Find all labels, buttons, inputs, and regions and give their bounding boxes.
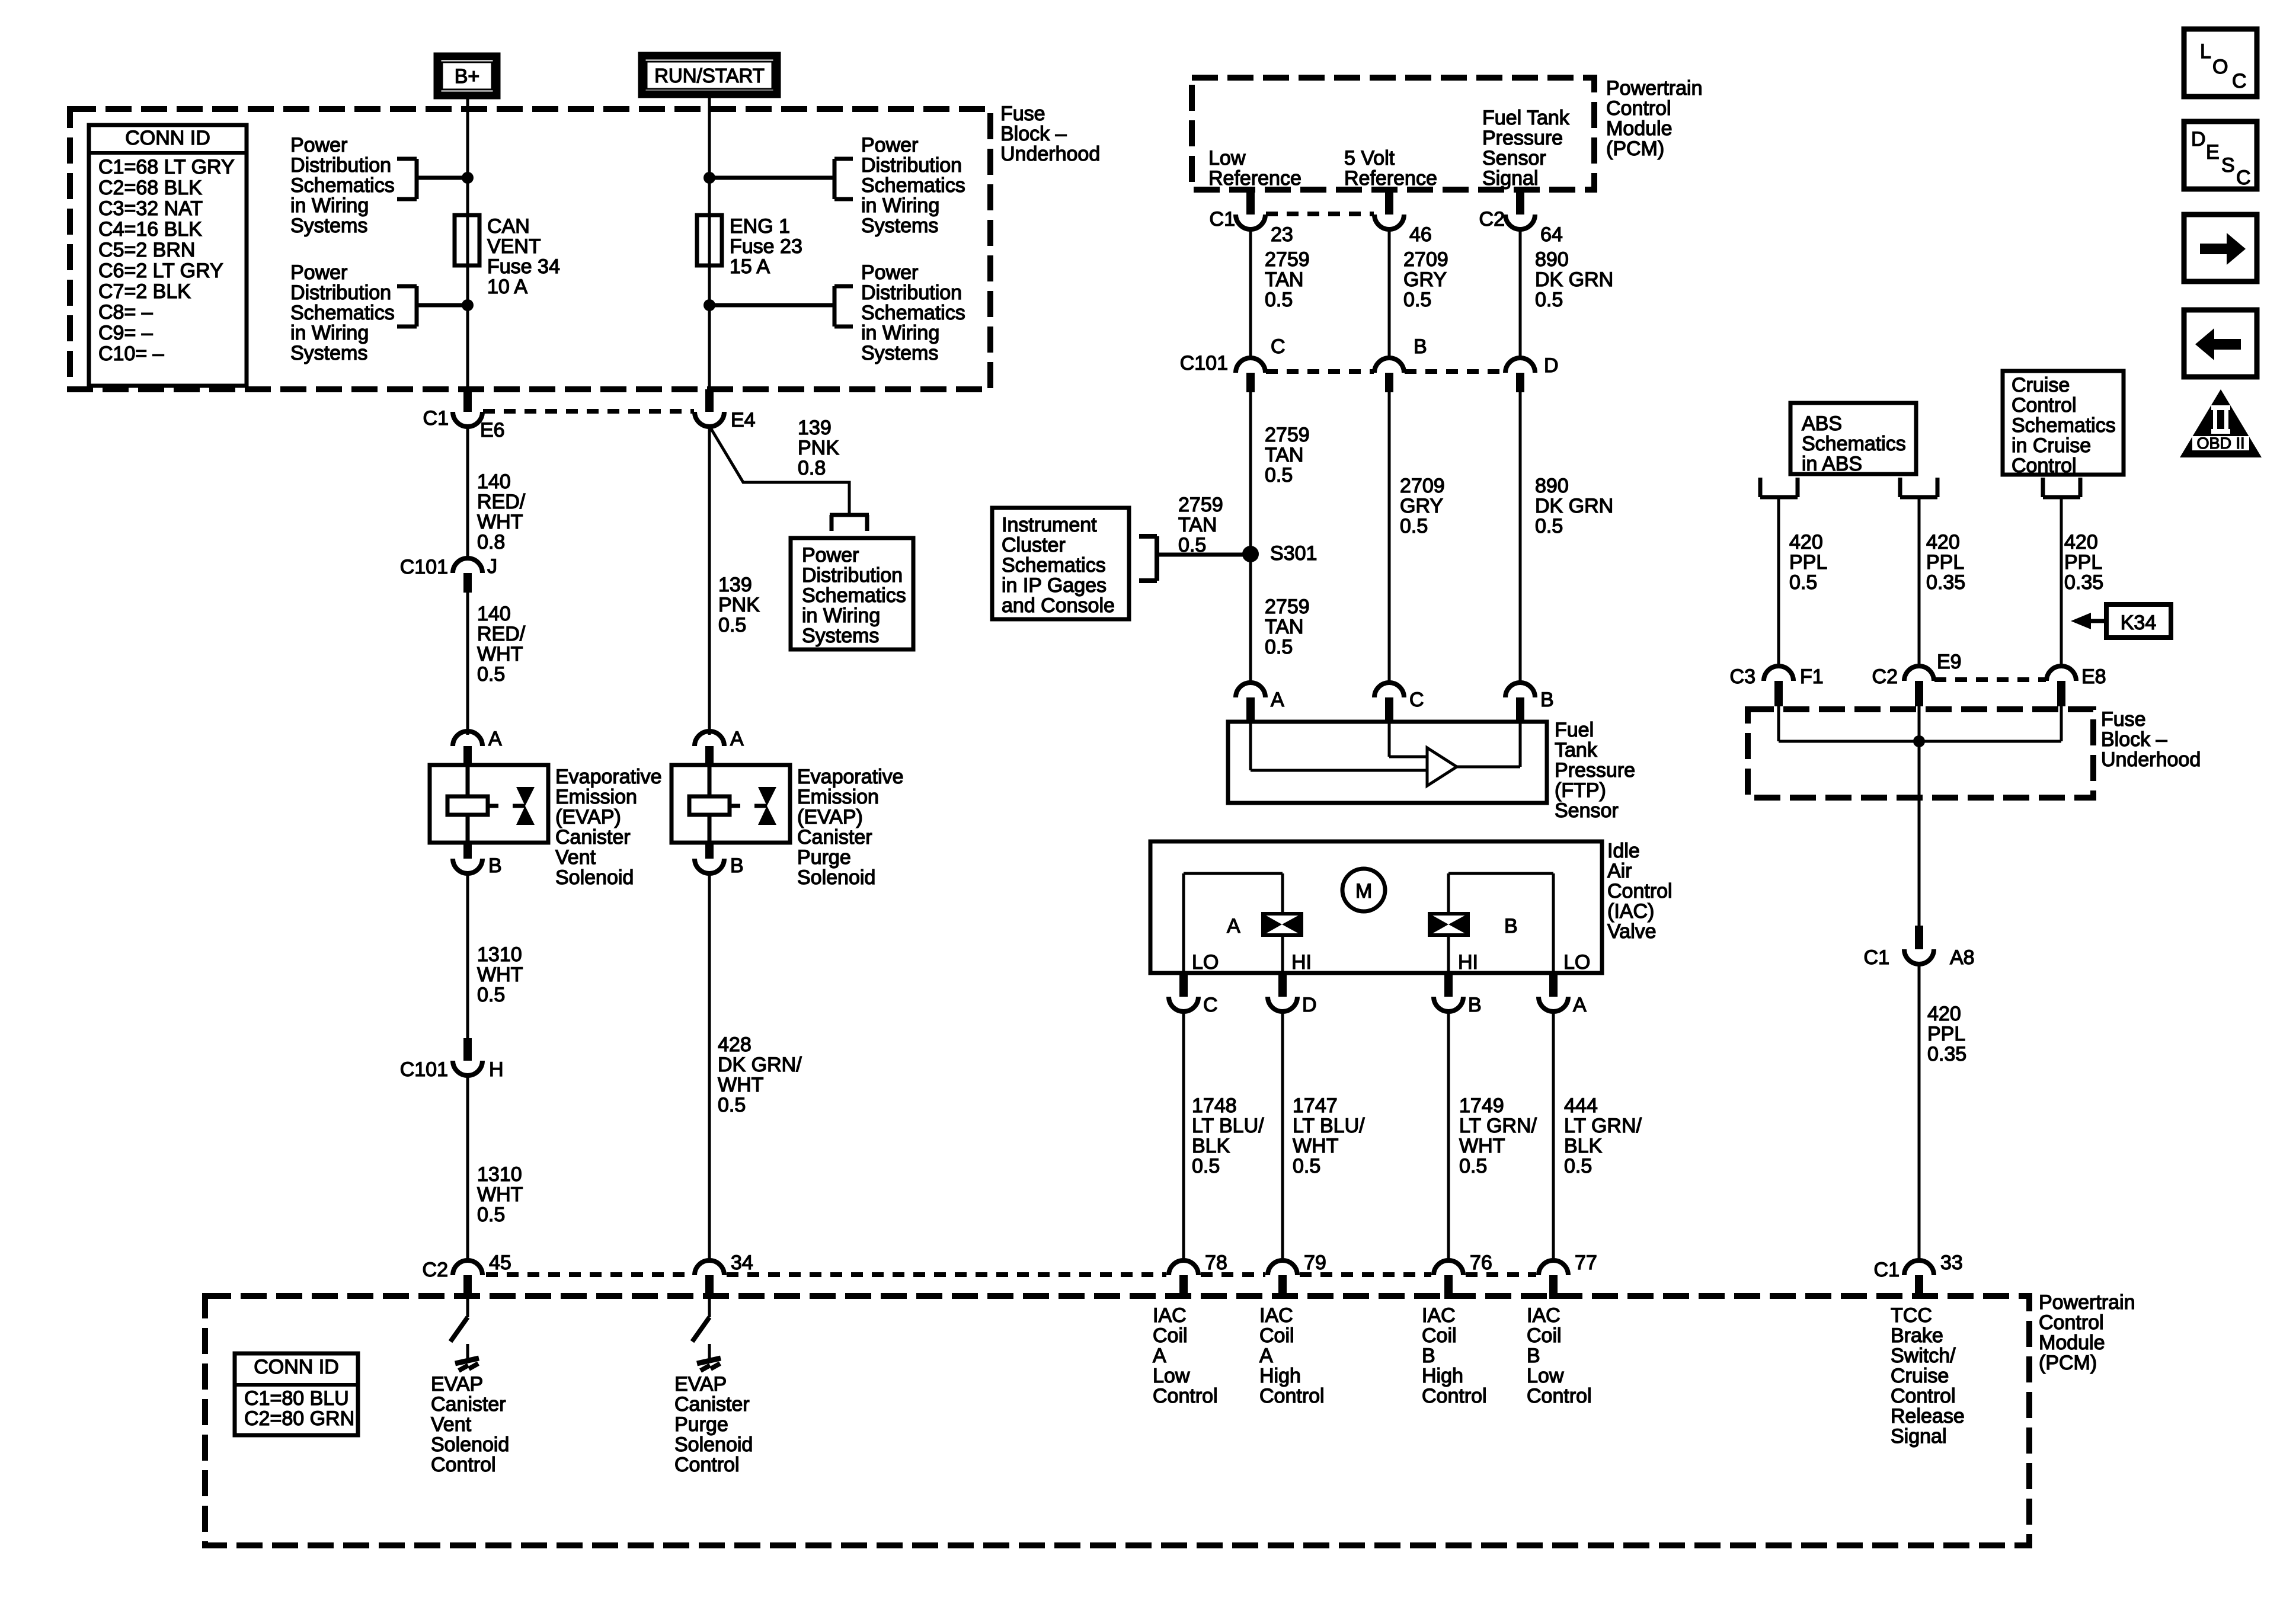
- svg-text:E: E: [2206, 141, 2220, 164]
- wire stub to lower-right bracket: [709, 303, 833, 308]
- svg-text:O: O: [2212, 56, 2228, 78]
- wire stub instrument to S301: [1157, 553, 1251, 557]
- svg-text:B: B: [1414, 335, 1427, 358]
- svg-text:A: A: [730, 728, 744, 750]
- connector pin pcm-top 23: [1246, 190, 1255, 215]
- svg-text:HI: HI: [1291, 951, 1312, 974]
- solenoid coil (purge): [708, 765, 712, 796]
- svg-text:64: 64: [1540, 223, 1563, 246]
- svg-text:CONN ID: CONN ID: [125, 127, 210, 149]
- connector A pin (purge): [705, 746, 714, 766]
- connector IAC D cup: [1268, 997, 1297, 1012]
- svg-text:M: M: [1355, 880, 1372, 902]
- wire 420 PPL 0.35 long: [1918, 964, 1921, 1261]
- K34 arrow: [2091, 619, 2106, 623]
- svg-text:34: 34: [731, 1251, 753, 1274]
- connector IAC B cup: [1434, 997, 1463, 1012]
- connector C2 E9 dome: [1904, 666, 1934, 681]
- connector A dome (vent solenoid): [453, 731, 482, 746]
- svg-text:E8: E8: [2081, 665, 2106, 688]
- svg-text:OBD II: OBD II: [2196, 434, 2244, 452]
- svg-text:76: 76: [1470, 1251, 1492, 1274]
- driver switch blade (vent): [466, 1299, 469, 1317]
- svg-text:L: L: [2200, 40, 2211, 63]
- svg-text:33: 33: [1940, 1251, 1963, 1274]
- svg-text:B: B: [1504, 915, 1518, 937]
- connector C1 E6 pin: [463, 389, 472, 412]
- wire 420 PPL 0.5: [1777, 497, 1780, 667]
- svg-text:E6: E6: [480, 419, 505, 441]
- dotted line bottom 79-76: [1300, 1272, 1431, 1277]
- bus line right: [1779, 740, 2061, 743]
- connector E4 cup: [695, 412, 724, 427]
- EVAP canister vent solenoid box: [430, 765, 548, 843]
- connector pcm-bottom 77 dome: [1539, 1260, 1568, 1275]
- svg-text:B: B: [730, 854, 744, 877]
- wire F1 to bus: [1777, 706, 1780, 741]
- junction dot B+ lower: [462, 299, 474, 311]
- connector cup pcm-top 23: [1236, 215, 1265, 229]
- svg-text:C2: C2: [1479, 208, 1505, 231]
- K34 box: [2106, 604, 2171, 638]
- svg-text:D: D: [1544, 354, 1559, 377]
- fuse block underhood dashed box: [70, 109, 990, 389]
- svg-text:A: A: [488, 728, 502, 750]
- svg-text:420PPL0.35: 420PPL0.35: [1927, 1003, 1966, 1065]
- connector B cup (purge): [695, 859, 724, 873]
- wire 1748: [1182, 1011, 1185, 1261]
- junction dot RUN upper: [703, 172, 715, 184]
- svg-text:J: J: [487, 555, 497, 578]
- pointer bracket lower-right: [833, 286, 837, 327]
- valve bowtie (purge): [754, 804, 767, 808]
- pointer bracket instrument cluster: [1155, 536, 1159, 581]
- connector pin pcm-top 46: [1385, 190, 1393, 215]
- ground lead (purge): [708, 1344, 711, 1360]
- svg-text:C1: C1: [423, 407, 449, 430]
- pointer bracket lower-left: [415, 286, 419, 327]
- connector FTP A dome: [1236, 683, 1265, 697]
- connector C1 E6 cup: [453, 412, 482, 427]
- wire 1747: [1281, 1011, 1284, 1261]
- PCM bottom dashed box: [205, 1296, 2029, 1545]
- svg-text:A: A: [1271, 689, 1284, 711]
- svg-text:K34: K34: [2121, 612, 2157, 634]
- pointer bracket under Cruise: [2041, 478, 2045, 497]
- fuse block right dashed box: [1748, 709, 2093, 798]
- PCM top dashed box: [1192, 78, 1594, 190]
- svg-text:B+: B+: [455, 65, 480, 88]
- pointer bracket above power dist box: [830, 513, 869, 517]
- wire 890 DK GRN middle: [1519, 392, 1522, 683]
- icon DESC box: [2184, 121, 2257, 189]
- svg-text:C101: C101: [400, 556, 448, 578]
- connector C101 J pin: [463, 573, 472, 593]
- svg-text:D: D: [2191, 128, 2206, 151]
- ground symbol (vent): [455, 1358, 479, 1363]
- wire 139 PNK 0.5: [708, 426, 711, 735]
- svg-text:C1: C1: [1864, 946, 1889, 969]
- FTP amplifier triangle: [1427, 748, 1457, 786]
- connector pin pcm-top 64: [1516, 190, 1524, 215]
- wire 2709 GRY upper: [1388, 229, 1391, 359]
- connector C101 C dome: [1236, 358, 1265, 373]
- svg-text:420PPL0.35: 420PPL0.35: [1926, 531, 1965, 594]
- svg-text:C3: C3: [1730, 665, 1755, 688]
- svg-text:78: 78: [1205, 1251, 1227, 1274]
- wire 139 PNK 0.8 branch: [709, 426, 849, 513]
- svg-text:F1: F1: [1800, 665, 1824, 688]
- box Instrument Cluster Schematics: [992, 508, 1129, 619]
- junction dot B+ upper: [462, 172, 474, 184]
- svg-text:H: H: [489, 1058, 504, 1081]
- IAC coil A loop: [1182, 873, 1185, 973]
- connector B cup (vent): [453, 859, 482, 873]
- wire 1310 WHT 0.5 lower: [466, 1075, 469, 1261]
- svg-text:B: B: [488, 854, 502, 877]
- EVAP canister purge solenoid box: [671, 765, 790, 843]
- svg-text:B: B: [1468, 994, 1482, 1016]
- ground lead (vent): [466, 1344, 469, 1360]
- icon LOC box: [2184, 29, 2257, 97]
- connector A pin (vent): [463, 746, 472, 766]
- svg-text:A: A: [1227, 915, 1240, 937]
- wire 420 PPL 0.35 right: [2060, 497, 2063, 667]
- svg-text:S301: S301: [1270, 542, 1317, 565]
- connector cup pcm-top 64: [1505, 215, 1535, 229]
- wire stub to lower-left bracket: [417, 303, 468, 308]
- connector IAC A pin: [1549, 973, 1558, 997]
- svg-text:S: S: [2221, 154, 2235, 177]
- svg-text:E4: E4: [731, 409, 756, 431]
- connector pcm-bottom 79 dome: [1268, 1260, 1297, 1275]
- connector C101 D dome: [1505, 358, 1535, 373]
- svg-text:C: C: [1409, 689, 1424, 711]
- connector IAC D pin: [1278, 973, 1287, 997]
- svg-text:46: 46: [1409, 223, 1432, 246]
- connector E8 dome: [2046, 666, 2076, 681]
- svg-text:C2: C2: [1872, 665, 1898, 688]
- fuse CAN VENT Fuse 34: [455, 215, 479, 265]
- dotted line bottom 76-77: [1466, 1272, 1536, 1277]
- pointer bracket upper-left: [415, 159, 419, 199]
- IAC motor circle: [1342, 869, 1385, 911]
- connector C1 A8 pin: [1915, 926, 1923, 949]
- connector FTP C dome: [1374, 683, 1404, 697]
- terminal RUN/START: [642, 56, 777, 94]
- dotted line bottom 45-34: [486, 1272, 692, 1277]
- box ABS Schematics in ABS: [1790, 403, 1916, 474]
- junction dot RUN lower: [703, 299, 715, 311]
- dotted line C1-23 to 46: [1266, 212, 1374, 216]
- connector FTP B dome: [1505, 683, 1535, 697]
- wire 140 RED/WHT 0.5: [466, 593, 469, 735]
- svg-text:77: 77: [1575, 1251, 1597, 1274]
- connector C1 A8 cup: [1904, 949, 1934, 964]
- terminal B+: [437, 56, 497, 95]
- svg-text:HI: HI: [1458, 951, 1478, 974]
- svg-text:C: C: [2236, 167, 2251, 189]
- connector B pin (vent): [463, 843, 472, 859]
- pointer bracket under ABS left: [1758, 478, 1763, 497]
- svg-text:B: B: [1540, 689, 1554, 711]
- svg-text:79: 79: [1304, 1251, 1326, 1274]
- IAC coil A symbol: [1263, 914, 1302, 935]
- wire stub to upper-right bracket: [709, 176, 833, 180]
- svg-text:E9: E9: [1937, 651, 1962, 673]
- wire 1749: [1447, 1011, 1450, 1261]
- connector pcm-bottom 45 dome: [453, 1260, 482, 1275]
- ground symbol (purge): [697, 1358, 721, 1363]
- connector IAC B pin: [1444, 973, 1453, 997]
- svg-text:A8: A8: [1950, 946, 1975, 969]
- solenoid coil (vent): [466, 765, 470, 796]
- svg-text:LO: LO: [1192, 951, 1219, 974]
- connector A dome (purge solenoid): [695, 731, 724, 746]
- svg-text:CONN ID: CONN ID: [254, 1356, 339, 1378]
- connector C101 H pin: [463, 1038, 472, 1061]
- splice S301: [1242, 546, 1259, 562]
- wire 140 RED/WHT 0.8: [466, 426, 469, 559]
- connector C101 B dome: [1374, 358, 1404, 373]
- svg-text:C: C: [1271, 335, 1285, 358]
- icon OBD II triangle: [2180, 389, 2262, 457]
- svg-text:C: C: [1203, 994, 1218, 1016]
- dotted line bottom 78-79: [1201, 1272, 1265, 1277]
- svg-text:C101: C101: [1180, 352, 1228, 375]
- FTP internal wire out: [1457, 766, 1520, 769]
- connector C101 H cup: [453, 1061, 482, 1076]
- svg-text:420PPL0.35: 420PPL0.35: [2064, 531, 2103, 594]
- wire B+ vertical: [466, 95, 469, 389]
- connector IAC A cup: [1539, 997, 1568, 1012]
- svg-text:C2: C2: [423, 1259, 448, 1281]
- FTP internal wire A: [1249, 722, 1252, 770]
- fuse ENG 1 Fuse 23: [697, 215, 722, 265]
- svg-text:45: 45: [489, 1251, 511, 1274]
- CONN ID table bottom: [235, 1353, 358, 1435]
- IAC coil B symbol: [1430, 914, 1468, 935]
- wire E9 down: [1918, 706, 1921, 926]
- pointer bracket upper-right: [833, 159, 837, 199]
- junction dot bus: [1913, 735, 1925, 747]
- wire 2709 GRY middle: [1388, 392, 1391, 683]
- svg-text:LO: LO: [1563, 951, 1590, 974]
- svg-text:A: A: [1573, 994, 1587, 1016]
- driver switch blade (purge): [708, 1299, 711, 1317]
- svg-text:RUN/START: RUN/START: [654, 65, 765, 87]
- wire 444: [1552, 1011, 1555, 1261]
- wire RUN/START vertical: [708, 94, 711, 389]
- FTP sensor box: [1228, 722, 1547, 803]
- connector pcm-bottom 33 dome: [1904, 1260, 1934, 1275]
- connector pcm-bottom 76 dome: [1434, 1260, 1463, 1275]
- svg-text:C1=80 BLUC2=80 GRN: C1=80 BLUC2=80 GRN: [244, 1387, 354, 1430]
- svg-text:C1: C1: [1874, 1259, 1900, 1281]
- valve bowtie (vent): [513, 804, 525, 808]
- dotted line E6 to E4: [483, 409, 694, 414]
- dotted line C101 C-B: [1266, 369, 1374, 374]
- box Cruise Control Schematics: [2003, 371, 2124, 475]
- svg-text:D: D: [1302, 994, 1317, 1016]
- connector C101 J dome: [453, 558, 482, 573]
- connector pcm-bottom 78 dome: [1169, 1260, 1198, 1275]
- wire 420 PPL 0.35 mid: [1918, 497, 1921, 667]
- CONN ID table: [89, 125, 247, 386]
- svg-text:23: 23: [1271, 223, 1293, 246]
- dotted line bottom 34-78: [727, 1272, 1166, 1277]
- wire 428 DK GRN/WHT 0.5: [708, 872, 711, 1261]
- wire 2759 TAN middle: [1249, 392, 1252, 683]
- IAC coil B loop: [1552, 873, 1555, 973]
- svg-text:C101: C101: [400, 1058, 448, 1081]
- connector C3 F1 dome: [1764, 666, 1793, 681]
- dotted line C101 B-D: [1405, 369, 1505, 374]
- svg-text:C: C: [2232, 70, 2247, 92]
- icon left arrow box: [2184, 310, 2257, 377]
- box Power Distribution Schematics in Wiring Systems: [791, 538, 913, 649]
- connector IAC C pin: [1179, 973, 1188, 997]
- connector cup pcm-top 46: [1374, 215, 1404, 229]
- connector B pin (purge): [705, 843, 714, 859]
- connector IAC C cup: [1169, 997, 1198, 1012]
- wire 2759 TAN upper: [1249, 229, 1252, 359]
- icon right arrow box: [2184, 215, 2257, 281]
- dotted line E9 to E8: [1934, 677, 2046, 682]
- connector pcm-bottom 34 dome: [695, 1260, 724, 1275]
- connector E4 pin: [705, 389, 714, 412]
- FTP internal wire C: [1388, 722, 1391, 757]
- pointer bracket under ABS right: [1898, 478, 1902, 497]
- wire E8 to bus: [2060, 706, 2063, 741]
- wire 1310 WHT 0.5 upper: [466, 872, 469, 1041]
- wire 890 DK GRN upper: [1519, 229, 1522, 359]
- wire stub to upper-left bracket: [417, 176, 468, 180]
- svg-text:C1: C1: [1210, 208, 1235, 231]
- IAC valve box: [1150, 841, 1602, 973]
